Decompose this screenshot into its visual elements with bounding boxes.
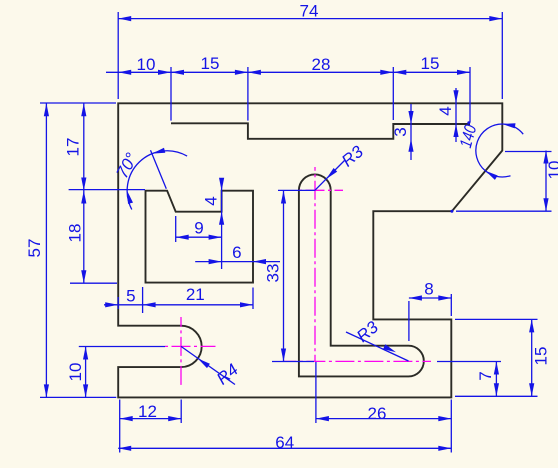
svg-text:17: 17 (63, 138, 82, 157)
radius dimension R3 bottom slot arc (346, 332, 409, 361)
svg-text:10: 10 (545, 161, 558, 180)
dimension 26 (316, 418, 451, 420)
svg-text:10: 10 (66, 363, 85, 382)
svg-text:21: 21 (186, 285, 205, 304)
svg-text:57: 57 (25, 239, 44, 258)
angular dimension 140 degrees (502, 124, 523, 134)
svg-text:5: 5 (126, 286, 135, 305)
svg-text:18: 18 (65, 224, 84, 243)
svg-text:64: 64 (275, 433, 294, 452)
dimension 7 (495, 362, 497, 397)
dimension 10 far right edge (545, 151, 547, 212)
svg-text:3: 3 (391, 127, 410, 136)
dimension 15 right side (531, 319, 533, 396)
radius dimension R4 slot arc (181, 346, 235, 384)
svg-text:8: 8 (424, 280, 433, 299)
dimension 4 top-right (455, 88, 457, 142)
svg-text:10: 10 (137, 55, 156, 74)
dimension 4 on island notch (221, 181, 223, 270)
dimension 64 bottom (118, 447, 451, 449)
dimension 74 top (118, 18, 502, 20)
L-shaped slot with rounded ends R3 (299, 174, 424, 376)
svg-text:7: 7 (476, 371, 495, 380)
radius dimension R3 top slot arc (315, 161, 345, 191)
dimension 10 lower-left (85, 347, 87, 398)
dimension 8 (409, 297, 451, 299)
svg-text:33: 33 (264, 264, 283, 283)
centerline horizontal of R4 slot (165, 345, 216, 347)
svg-text:15: 15 (201, 54, 220, 73)
dimension 18 left (83, 191, 85, 284)
centerline vertical of L-slot top arc (314, 167, 316, 362)
svg-text:6: 6 (232, 243, 241, 262)
svg-text:4: 4 (201, 196, 220, 205)
svg-text:9: 9 (194, 219, 203, 238)
part outline (black profile with R4 slot on left edge) (118, 103, 502, 397)
dimension row 10 15 28 15 (106, 71, 470, 73)
svg-text:4: 4 (436, 106, 455, 115)
svg-text:74: 74 (300, 2, 319, 21)
centerline horizontal of L-slot top arc (296, 189, 343, 191)
dimension 57 left (45, 103, 47, 397)
svg-text:15: 15 (532, 347, 551, 366)
centerline vertical of R4 slot (180, 317, 182, 386)
dimension 33 (283, 191, 285, 362)
island boss with 70-degree notch (146, 191, 254, 283)
internal step edges below top edge (171, 123, 470, 139)
dimension 17 left (83, 103, 85, 190)
dimension 3 (410, 104, 412, 160)
svg-text:15: 15 (421, 54, 440, 73)
svg-text:28: 28 (312, 55, 331, 74)
svg-text:12: 12 (138, 402, 157, 421)
dimension 9 (176, 236, 222, 238)
dimension 5 and 21 (104, 304, 253, 306)
dimension 12 (120, 418, 182, 420)
dimension 6 (195, 261, 280, 263)
angular dimension 70 degrees (151, 150, 167, 189)
svg-text:26: 26 (368, 404, 387, 423)
centerline horizontal of L-slot right arc (284, 360, 431, 362)
